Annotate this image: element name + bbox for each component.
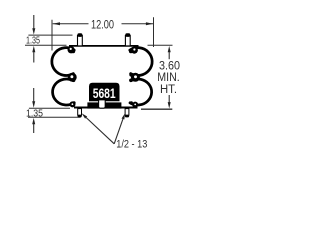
bottom 1.35 up arrow shaft — [33, 124, 35, 133]
leader arrowhead right — [122, 113, 125, 119]
svg-text:12.00: 12.00 — [91, 19, 114, 31]
svg-text:1/2 - 13: 1/2 - 13 — [116, 138, 147, 150]
bottom bead right — [132, 102, 138, 108]
bottom 1.35 down arrow shaft — [33, 88, 35, 102]
top 1.35 lower extension line — [25, 44, 67, 46]
upper left lobe — [52, 48, 74, 76]
bottom stud left — [78, 109, 82, 118]
girdle bead right — [131, 73, 140, 82]
top bead right bridge — [129, 49, 133, 53]
top 1.35 up arrowhead — [32, 46, 35, 52]
bottom 1.35 lower extension line — [28, 116, 81, 118]
top bead left — [68, 46, 75, 53]
leader line right 1/2-13 — [114, 119, 123, 144]
dimension 12.00 right extension line — [153, 17, 155, 47]
svg-text:5681: 5681 — [93, 86, 116, 101]
bottom stud right — [125, 109, 129, 118]
dimension 12.00 left extension line — [51, 20, 53, 51]
top stud right — [125, 33, 130, 46]
svg-text:1.35: 1.35 — [26, 36, 40, 47]
label clamp bar — [87, 102, 121, 108]
bottom bead right bridge — [130, 101, 133, 104]
top 1.35 up arrow shaft — [33, 52, 35, 63]
lower right lobe — [130, 79, 152, 105]
girdle bead left bridges — [71, 73, 75, 77]
leader line left 1/2-13 — [86, 118, 114, 144]
bottom bead left — [70, 101, 76, 107]
bottom bead left bridge — [72, 101, 75, 104]
svg-text:MIN.: MIN. — [157, 72, 180, 84]
right 3.60 down arrowhead — [168, 102, 171, 108]
svg-text:3.60: 3.60 — [159, 60, 180, 72]
girdle bead right bridges — [129, 73, 133, 77]
white tab under label — [99, 100, 106, 108]
top 1.35 upper extension line — [28, 34, 72, 36]
svg-text:HT.: HT. — [160, 84, 177, 96]
right 3.60 down arrow shaft — [168, 95, 170, 103]
svg-text:1.35: 1.35 — [26, 109, 43, 120]
bottom 1.35 down arrowhead — [32, 101, 35, 107]
top plate — [69, 45, 139, 47]
leader arrowhead left — [82, 113, 88, 118]
girdle bead left — [68, 73, 77, 82]
dimension 12.00 right arrowhead — [146, 22, 153, 25]
top bead left bridge — [71, 49, 75, 53]
top bead right — [131, 47, 138, 54]
right 3.60 top extension line — [148, 44, 173, 46]
bottom 1.35 upper extension line — [29, 107, 70, 109]
right 3.60 up arrow shaft — [168, 52, 170, 59]
top 1.35 down arrow shaft — [33, 15, 35, 29]
right 3.60 bottom extension line — [141, 108, 172, 110]
bottom 1.35 up arrowhead — [32, 118, 35, 124]
label box 5681 — [89, 83, 120, 101]
top 1.35 down arrowhead — [32, 28, 35, 34]
upper right lobe — [130, 48, 152, 76]
bottom plate — [74, 107, 138, 109]
top stud left — [77, 33, 82, 46]
lower left lobe — [53, 79, 75, 105]
dimension 12.00 left arrowhead — [53, 22, 60, 25]
right 3.60 up arrowhead — [168, 46, 171, 52]
dimension 12.00 line right segment — [122, 23, 154, 25]
dimension 12.00 line left segment — [53, 23, 89, 25]
